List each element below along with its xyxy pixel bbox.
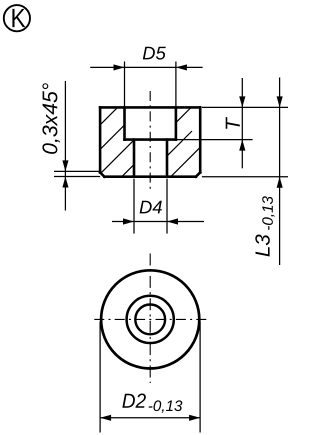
hatching left block [92,92,192,192]
D5 extension line right [175,62,177,107]
bottom face edge [104,175,195,178]
chamfer dimension line [64,81,66,211]
chamfer bottom-left 0,3x45 [100,172,104,176]
hatching right block [107,107,226,213]
chamfer arrow lower [62,177,68,188]
D2 extension line right [199,322,201,433]
D5 value label [143,47,166,60]
T arrow lower [239,140,245,151]
T arrow upper [239,96,245,107]
top face extension line (T / L3) [202,106,288,108]
D4 extension line right [166,179,168,234]
D2 arrow left [100,415,111,421]
L3 dimension line [279,78,281,266]
bottom view hole circle [135,305,165,335]
D4 extension line left [133,179,135,234]
hole right wall D4 [166,140,169,177]
bottom face extension line (L3) [202,176,288,178]
D2 arrow right [189,415,200,421]
chamfer extension line upper [54,170,100,172]
counterbore depth extension line (T) [177,139,252,141]
T dimension line [241,78,243,168]
bottom view horizontal centerline [91,318,208,320]
T value label (rotated) [226,117,240,129]
top face edge [100,106,200,109]
L3 arrow upper [277,96,283,107]
D5 arrow left [114,64,125,70]
D2 extension line left [99,322,101,433]
bottom view vertical centerline [149,254,151,384]
D4 arrow right [167,218,178,224]
part outline (section view, thick lines) [100,107,200,176]
bottom view outer circle D2 [101,270,199,368]
chamfer arrow upper [62,160,68,171]
section axis centerline [149,91,151,190]
D5 extension line left [124,62,126,107]
L3 arrow lower [277,177,283,188]
view label circle K [4,5,30,31]
counterbore left wall D5 [123,107,126,139]
counterbore bottom shoulder [125,138,176,141]
counterbore right wall D5 [175,107,178,139]
chamfer value label 0,3x45deg (rotated) [42,83,60,154]
D2 value label with tolerance [122,394,146,408]
D2 dimension line [100,417,200,419]
chamfer bottom-right 0,3x45 [196,172,200,176]
D5 arrow right [176,64,187,70]
L3 value label with tolerance (rotated) [255,196,274,256]
left outer edge [99,107,102,172]
D5 dimension line [90,66,202,68]
right outer edge [199,107,202,172]
D4 dimension line [112,221,204,223]
bottom view counterbore circle [127,296,174,343]
D4 arrow left [123,218,134,224]
view label letter K [12,9,25,27]
chamfer extension line lower [54,176,100,178]
D4 value label [140,201,162,214]
hole left wall D4 [133,140,136,177]
